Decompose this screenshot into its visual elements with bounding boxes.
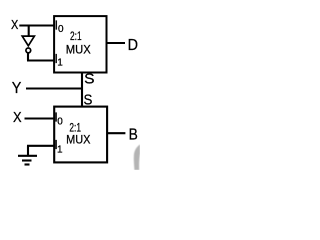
svg-text:1: 1 [57,144,63,155]
mux U2 (bottom 2:1 MUX) [54,107,107,163]
watermark swoosh [134,145,140,171]
wire bubble down [27,54,29,61]
svg-text:0: 0 [57,116,63,127]
inverter bubble [26,48,31,53]
svg-text:S: S [84,92,93,108]
wire junction drop to inverter [28,26,30,37]
wire X to I0 (U2) [25,117,55,119]
svg-text:2:1: 2:1 [70,29,82,43]
svg-text:B: B [129,126,138,143]
svg-text:MUX: MUX [66,133,90,147]
svg-text:D: D [128,37,138,54]
wire to I1 (U1) [27,59,54,61]
pin label I1 (U1) [54,51,63,69]
svg-text:0: 0 [58,24,64,35]
wire X to I0 (U1) [19,24,54,26]
svg-text:S: S [84,71,94,87]
pin label I0 (U2) [54,109,63,127]
mux U1 (top 2:1 MUX) [54,16,106,72]
svg-text:MUX: MUX [66,43,91,57]
ground [18,146,37,165]
svg-text:1: 1 [57,57,63,68]
svg-text:X: X [11,17,19,32]
svg-text:X: X [13,110,22,126]
wire S vertical (U1 S to U2 S) [81,73,83,107]
wire Y to S node [26,87,83,89]
pin label I1 (U2) [54,137,63,156]
svg-text:Y: Y [12,80,22,97]
inverter (NOT gate, pointing down) [22,36,34,46]
wire B output (U2) [107,132,125,134]
wire ground to I1 (U2) [27,145,54,147]
wire D output (U1) [107,42,126,44]
pin label I0 (U1) [55,18,65,36]
